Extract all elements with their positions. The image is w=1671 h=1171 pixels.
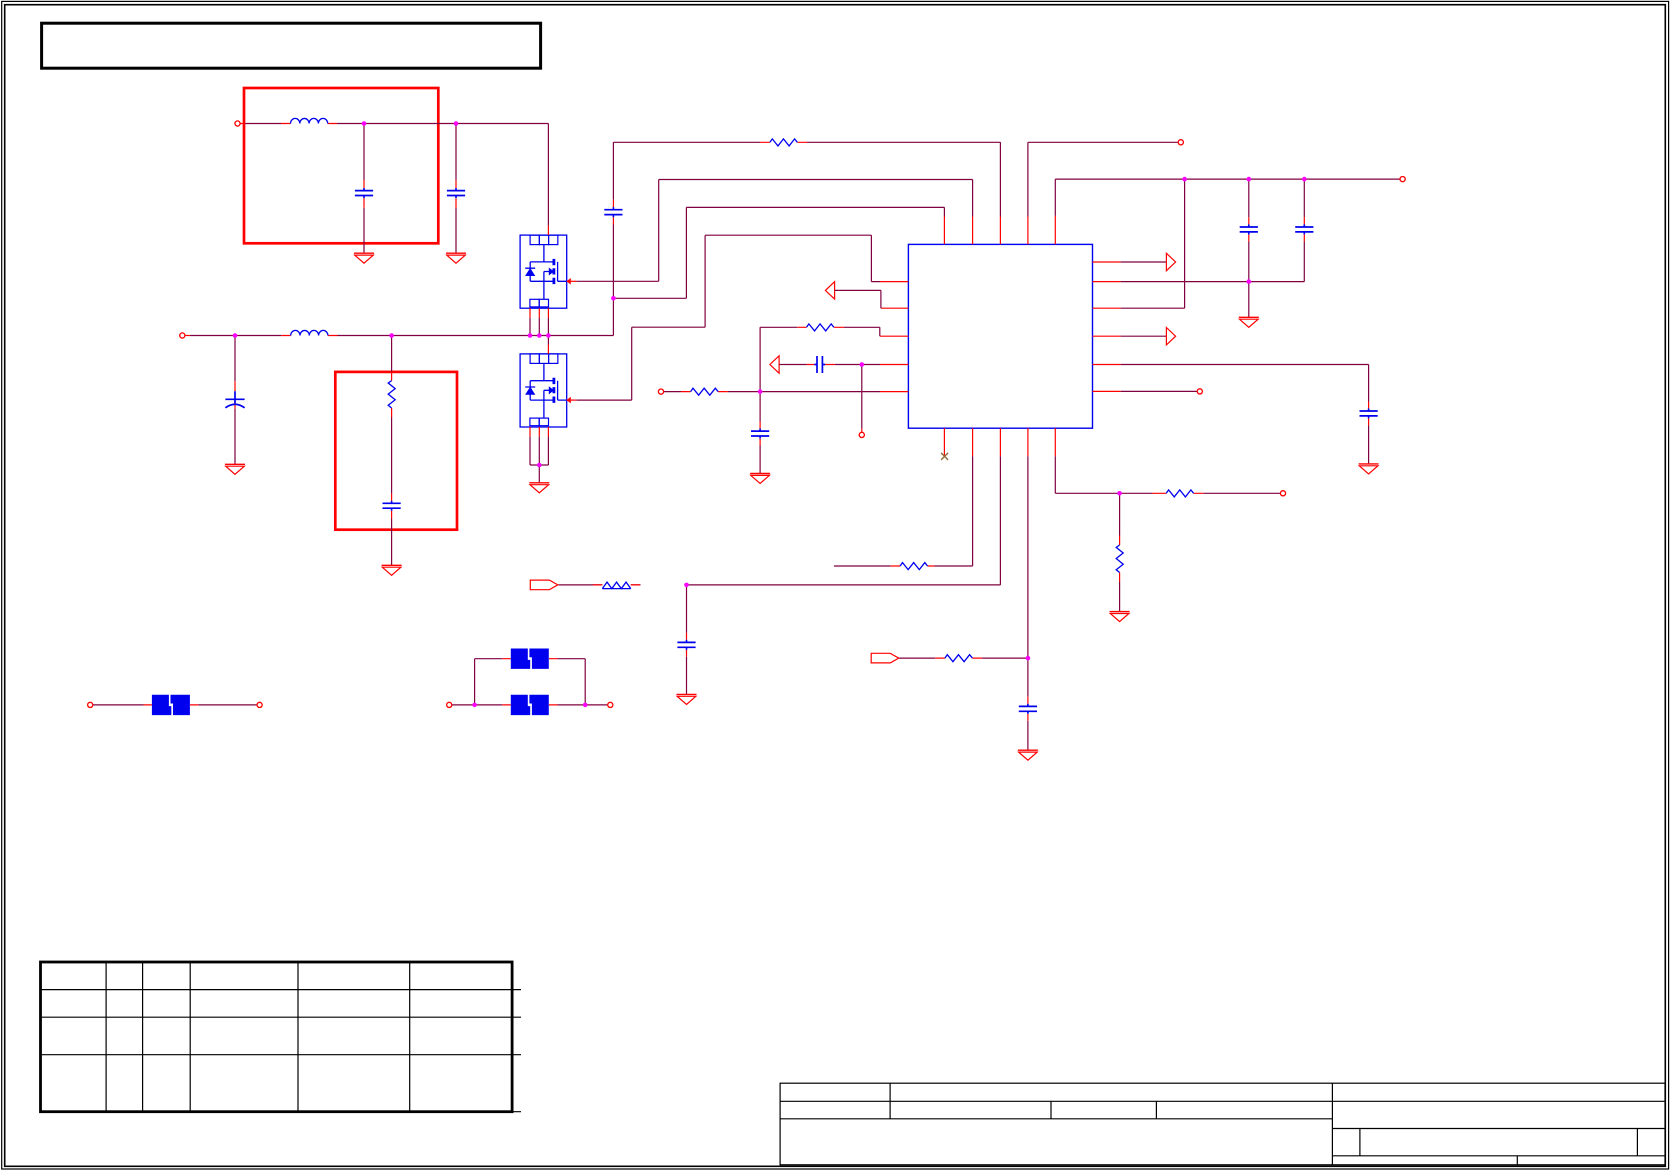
wire VIN2 / switch bus	[190, 335, 614, 337]
capacitor C1	[355, 188, 373, 198]
wire IC pin R5 long to cap C10	[1121, 365, 1369, 464]
wire IC bottom pin y566 net	[834, 456, 973, 566]
port P1	[235, 121, 240, 126]
ground under C8 junction	[1239, 317, 1259, 327]
junction bus/Q1 pin6	[537, 333, 542, 338]
gate arrow Q2	[567, 397, 571, 404]
wire Q2 drain to bus	[547, 336, 549, 345]
junction FB divider	[1117, 491, 1122, 496]
pin stubs cap C8	[1248, 217, 1250, 241]
capacitor C9	[1295, 224, 1313, 234]
pin stubs cap C7	[759, 422, 761, 446]
red highlight box 1 (input filter)	[244, 88, 438, 243]
ground under C2	[446, 253, 466, 263]
pin stubs fuse F2	[144, 704, 199, 706]
IC U1 right pin stubs	[1093, 262, 1121, 391]
pin stubs resistor R7	[890, 565, 934, 567]
junction VCC/C9	[1302, 177, 1307, 182]
port P5	[1178, 140, 1183, 145]
title box (empty, top-left)	[42, 23, 541, 68]
capacitor C5	[604, 207, 622, 217]
resistor R4	[691, 388, 719, 395]
port tag T1	[530, 580, 558, 590]
ground under C7	[750, 474, 770, 484]
ground under R6	[1110, 612, 1130, 622]
wire top feedback rail y142	[613, 142, 1000, 216]
pin stubs cap C5	[612, 200, 614, 225]
wire cap C8 column	[1248, 179, 1250, 317]
title block (bottom-right)	[780, 1083, 1665, 1165]
wire feedback resistor column	[391, 336, 393, 566]
port P6	[1197, 389, 1202, 394]
polarized capacitor C3	[225, 391, 244, 403]
pin stubs cap C11	[686, 633, 688, 657]
wire IC pin R6 to port	[1121, 390, 1198, 392]
wire polarized cap column	[234, 336, 236, 465]
wire Q2 source join	[530, 437, 548, 483]
port P11	[608, 702, 613, 707]
wire comp cap net	[779, 365, 880, 429]
resistor R2	[770, 139, 797, 146]
pin stubs fuse F3	[502, 658, 557, 660]
pin stubs resistor R5	[1153, 492, 1204, 494]
resistor R5	[1166, 490, 1193, 497]
pin stubs inductor L2	[281, 335, 337, 337]
no-connect X on IC pin	[941, 453, 948, 460]
capacitor C6 (series)	[814, 356, 825, 373]
pin stubs resistor R4	[681, 391, 728, 393]
wire IC bottom pin y658 net	[898, 456, 1028, 658]
capacitor C11	[677, 640, 695, 650]
pin stubs cap C6	[807, 365, 862, 433]
ground under C4	[382, 565, 402, 575]
wire cap C11 column	[686, 585, 688, 695]
arrow into IC left pin 2	[825, 282, 834, 299]
junction SS/C12	[1026, 656, 1031, 661]
ground under C3	[225, 464, 245, 474]
red highlight box 2 (feedback divider)	[335, 372, 457, 530]
resistor R7	[900, 563, 927, 570]
junction Q2 source	[537, 463, 542, 468]
pin stub Q1 drain top	[547, 226, 549, 235]
red tail port P2	[185, 335, 190, 337]
pin stubs fuse F4	[502, 704, 557, 706]
ground under C10	[1359, 464, 1379, 474]
capacitor C2	[447, 188, 465, 198]
IC U1 (controller)	[908, 244, 1092, 428]
transistor Q2 (dual MOSFET package, low side)	[520, 354, 567, 427]
junction bus/Q1 pin7	[546, 333, 551, 338]
junction comp node	[860, 362, 865, 367]
IC U1 bottom pin stubs	[944, 428, 1055, 456]
port P4	[1400, 177, 1405, 182]
junction F3/F4 left	[472, 703, 477, 708]
wire fuse F2 net	[93, 704, 257, 706]
pin stubs inductor L1	[281, 123, 337, 125]
pin stubs cap C12	[1027, 697, 1029, 721]
junction F3/F4 right	[583, 703, 588, 708]
gate arrow Q1	[567, 278, 571, 285]
pin stubs cap C9	[1303, 217, 1305, 241]
ground under C11	[677, 694, 697, 704]
fuse F2	[152, 695, 190, 715]
resistor R1 (vertical)	[388, 381, 395, 408]
junction GND/C8 bottom	[1247, 279, 1252, 284]
wire y142 to port	[1028, 142, 1178, 216]
revision table (bottom-left)	[41, 962, 522, 1112]
junction VIN2/R1	[389, 333, 394, 338]
junction EN/C11	[684, 583, 689, 588]
ground under Q2	[529, 483, 549, 493]
wire arrow to IC pin L2	[835, 290, 881, 308]
pin stubs resistor R1	[391, 372, 393, 418]
junction boot node	[611, 296, 616, 301]
capacitor C4	[383, 501, 401, 511]
pin stubs cap C10	[1368, 402, 1370, 426]
junction VIN2/C3	[233, 333, 238, 338]
port P7	[1280, 491, 1285, 496]
junction VIN1/C1	[362, 121, 367, 126]
pin stubs resistor R9	[935, 657, 982, 659]
pin stubs resistor R6	[1119, 536, 1121, 583]
wire y179 right rail	[1055, 179, 1400, 216]
pin stubs cap C1	[363, 180, 365, 208]
fuse F3	[511, 649, 549, 669]
capacitor C10	[1360, 408, 1378, 418]
wire cap C2 column	[455, 124, 457, 254]
wire current sense net y392	[664, 391, 880, 393]
arrow out IC pin R4	[1166, 328, 1175, 345]
junction bus/Q1 pin5	[528, 333, 533, 338]
wire Q1 source pins to bus	[530, 318, 548, 336]
wire cap C12 column	[1027, 658, 1029, 750]
port tag T2	[871, 653, 899, 663]
wire VIN1 top rail	[245, 124, 548, 226]
resistor R6 (vertical)	[1116, 545, 1123, 573]
IC U1 top pin stubs	[944, 216, 1055, 245]
port below comp junction	[859, 432, 864, 437]
pin stubs sawtooth resistor R8	[593, 584, 640, 586]
resistor R9	[945, 655, 973, 662]
wire boot cap column x613	[612, 142, 614, 335]
wire IC pin L3 resistor path	[760, 327, 880, 336]
transistor Q1 (dual MOSFET package, high side)	[520, 235, 567, 308]
sawtooth resistor R8	[602, 582, 631, 589]
wire Q1 gate to IC HO pin	[577, 180, 973, 282]
port P10	[447, 702, 452, 707]
wire sense filter column x760	[759, 327, 761, 473]
wire cap C1 column	[363, 124, 365, 254]
pin stubs cap C2	[455, 180, 457, 208]
junction VCC/C8	[1247, 177, 1252, 182]
wire cap C9 column	[1303, 179, 1305, 282]
pin stub Q1 gate	[567, 280, 577, 282]
resistor R3	[807, 324, 834, 331]
port P9	[257, 702, 262, 707]
wire junction x613 to IC pin1	[613, 207, 944, 298]
wire IC bottom pin to y493 net	[1055, 456, 1280, 493]
inductor L2	[291, 330, 328, 335]
IC U1 left pin stubs	[880, 282, 908, 392]
pin stubs Q2 source bottom	[530, 427, 548, 437]
arrow into comp cap net	[770, 356, 779, 373]
port P2	[180, 333, 185, 338]
pin stubs Q1 source bottom	[530, 308, 548, 318]
wire IC pin R2 to caps	[1121, 281, 1305, 283]
ground under C12	[1018, 750, 1038, 760]
arrow out IC pin R1	[1166, 253, 1175, 270]
pin stubs resistor R3	[797, 326, 844, 328]
wire Q2 gate to IC LO pin	[577, 235, 880, 400]
wire IC pin R3 up	[1121, 179, 1185, 308]
pin stub Q2 drain top	[547, 345, 549, 354]
port P3	[658, 389, 663, 394]
junction VCC/R3 wire	[1182, 177, 1187, 182]
port P8	[88, 702, 93, 707]
junction sense node	[758, 389, 763, 394]
pin stubs polarized cap C3	[234, 381, 236, 408]
wire arrow IC right pin 4	[1121, 335, 1167, 337]
pin stubs resistor R2	[760, 141, 807, 143]
wire arrow IC right pin 1	[1121, 261, 1167, 263]
fuse F4	[511, 695, 549, 715]
wire IC bottom pin y585 net	[558, 456, 1000, 585]
wire parallel fuse net	[452, 659, 608, 705]
inductor L1	[291, 118, 328, 123]
pin stub Q2 gate	[567, 399, 577, 401]
pin stubs cap C4	[391, 494, 393, 519]
capacitor C12	[1019, 704, 1037, 714]
capacitor C7	[751, 429, 769, 439]
capacitor C8	[1240, 224, 1258, 234]
wire resistor R6 column	[1119, 493, 1121, 611]
junction VIN1/C2	[454, 121, 459, 126]
ground under C1	[354, 253, 374, 263]
red tail port P1	[240, 123, 245, 125]
